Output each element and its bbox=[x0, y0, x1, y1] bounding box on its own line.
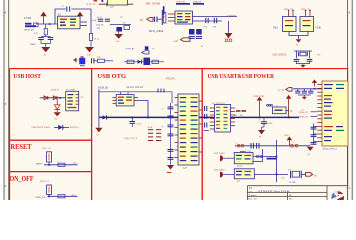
crystal Y1 bbox=[288, 170, 301, 184]
grid reference letter left top bbox=[4, 11, 6, 15]
battery charger IC U9 pins top bbox=[301, 8, 311, 17]
pins of U4 bbox=[113, 98, 139, 104]
svg-text:5V_IN: 5V_IN bbox=[278, 89, 285, 92]
ground GND5 bbox=[297, 61, 310, 67]
power port VDD_USB bbox=[253, 95, 264, 117]
IC U8 bbox=[283, 17, 297, 32]
svg-text:DC.4: DC.4 bbox=[94, 38, 100, 41]
pins left of U5 with caps bbox=[210, 108, 215, 129]
svg-text:X?: X? bbox=[318, 54, 321, 57]
battery charger IC U8 pins top bbox=[284, 8, 294, 17]
capacitor C12 bbox=[294, 59, 300, 61]
svg-text:SCSC D?: SCSC D? bbox=[86, 3, 95, 6]
svg-text:USB_DM: USB_DM bbox=[176, 2, 185, 4]
label XTAL1 below U6 bbox=[323, 147, 338, 150]
net label OSC32 RTC bbox=[273, 54, 287, 57]
capacitor C9 strip bbox=[92, 58, 94, 63]
svg-text:3: 3 bbox=[4, 102, 6, 106]
svg-text:2: 2 bbox=[4, 184, 6, 188]
ground GND10 bbox=[307, 147, 314, 156]
diode D5 above USB HOST box bbox=[73, 56, 85, 66]
svg-text:C?: C? bbox=[152, 48, 155, 51]
svg-text:100nF: 100nF bbox=[267, 123, 273, 125]
svg-text:- STM32F4xx USB: - STM32F4xx USB bbox=[256, 190, 291, 193]
pin right of U2 bbox=[128, 3, 133, 5]
svg-text:RESET: RESET bbox=[11, 142, 33, 151]
wire U4 to bus bbox=[138, 101, 148, 118]
svg-text:SW2 2-3: SW2 2-3 bbox=[40, 180, 50, 183]
resistor R4 on net bbox=[58, 195, 65, 198]
wire row2 to right bbox=[254, 174, 288, 176]
svg-text:BAT USB?: BAT USB? bbox=[214, 152, 225, 155]
svg-text:USB USART&USB POWER: USB USART&USB POWER bbox=[208, 73, 275, 80]
svg-text:ON_OFF: ON_OFF bbox=[10, 174, 34, 183]
power port VDD above U6 bbox=[312, 79, 317, 86]
wire RESET net bbox=[44, 164, 78, 166]
capacitor network below U2 bbox=[97, 17, 123, 30]
pins left of U3 bbox=[168, 14, 175, 21]
svg-text:BAT(5V): BAT(5V) bbox=[70, 126, 79, 129]
svg-text:NRST: NRST bbox=[36, 162, 43, 165]
net label bar USB_DM bbox=[176, 2, 190, 5]
grid reference letter right bottom bbox=[348, 186, 350, 190]
diode D3 on J1 wire bbox=[53, 96, 57, 100]
section box RESET bbox=[10, 140, 92, 171]
wire row1 to right bbox=[253, 157, 277, 162]
polarity circles pair right bbox=[287, 144, 298, 148]
polarity circles row1 bbox=[256, 155, 262, 157]
svg-text:+OD: +OD bbox=[72, 162, 77, 165]
title block text project bbox=[249, 190, 291, 193]
capacitor C22 on bottom wire bbox=[247, 143, 259, 153]
label right of J1 bbox=[81, 97, 84, 99]
pins left of U7 bbox=[175, 98, 179, 158]
label SW1 bbox=[42, 147, 52, 150]
net labels PRESET 2 bbox=[299, 116, 317, 118]
capacitor C1 on top loop bbox=[61, 5, 70, 12]
capacitor C6 bbox=[213, 18, 218, 29]
ground GND6 bbox=[54, 110, 61, 121]
label U7 bbox=[184, 167, 188, 170]
section title RESET bbox=[11, 142, 33, 151]
label NRST bbox=[36, 162, 43, 165]
net label A bbox=[201, 45, 203, 48]
ground arrow with polarity circles bbox=[225, 21, 233, 42]
section title USB HOST bbox=[14, 73, 42, 80]
svg-text:47pF: 47pF bbox=[148, 127, 153, 129]
svg-text:U?: U? bbox=[237, 180, 240, 183]
net labels above power bus bbox=[234, 115, 244, 117]
ground GND9 bbox=[258, 127, 265, 139]
net arrow VBUS_FS bbox=[142, 51, 150, 54]
net label bar USB_DP bbox=[193, 2, 204, 5]
section box USB OTG bbox=[92, 69, 203, 202]
title block text TITLE bbox=[249, 187, 253, 190]
decoupling caps column bbox=[168, 103, 174, 144]
svg-text:1u: 1u bbox=[162, 127, 164, 129]
svg-text:1-D: 1-D bbox=[174, 40, 178, 43]
ground GND7 bbox=[95, 117, 102, 136]
pins right of U5 bbox=[231, 108, 236, 126]
svg-text:XTAL1/PC14: XTAL1/PC14 bbox=[323, 147, 338, 150]
net label VB OTG bbox=[166, 77, 176, 80]
company logo bbox=[331, 191, 345, 204]
svg-text:USB OTG: USB OTG bbox=[98, 73, 127, 80]
power port VDD arrow lower bbox=[174, 38, 191, 43]
diode D8 bbox=[220, 172, 234, 178]
diode D7 bbox=[220, 155, 234, 161]
net label DGB_ID bbox=[98, 86, 108, 89]
svg-text:4: 4 bbox=[348, 11, 350, 15]
bottom supply wire bbox=[235, 145, 310, 147]
svg-text:VB OTG: VB OTG bbox=[166, 77, 176, 80]
label BAT USB row2 bbox=[214, 169, 225, 172]
capacitor C19 bbox=[295, 89, 300, 93]
title block text date bbox=[249, 198, 258, 201]
svg-text:1u: 1u bbox=[162, 109, 164, 111]
pin and net label left of U2 bbox=[86, 0, 107, 6]
ground GND2 bbox=[85, 47, 94, 57]
svg-text:B.te: 20: B.te: 20 bbox=[249, 198, 258, 200]
svg-text:F? D? R?: F? D? R? bbox=[126, 48, 135, 51]
svg-text:1u: 1u bbox=[162, 118, 164, 120]
resistor R5 bbox=[236, 110, 241, 112]
title block text rev bbox=[289, 194, 293, 201]
IC U11 load switch bbox=[234, 169, 254, 183]
net label right of bus bbox=[302, 109, 304, 112]
svg-text:5V: 5V bbox=[240, 115, 243, 117]
section title ON_OFF bbox=[10, 174, 34, 183]
connector/net labels left of U1 bbox=[24, 17, 38, 32]
svg-text:VDD: VDD bbox=[284, 135, 289, 137]
svg-text:R22: R22 bbox=[97, 57, 101, 59]
wire U1 input bbox=[36, 23, 58, 25]
svg-text:C?: C? bbox=[258, 120, 260, 122]
capacitor C20 bbox=[302, 89, 307, 93]
IC U1 crystal oscillator bbox=[58, 14, 81, 29]
sheet frame left outer line bbox=[3, 0, 5, 200]
svg-text:USB HOST VBUS: USB HOST VBUS bbox=[32, 126, 51, 129]
supply rail into U6 bbox=[293, 88, 322, 90]
svg-text:PWR_BT: PWR_BT bbox=[36, 196, 46, 199]
sheet frame left inner line bbox=[8, 0, 10, 200]
net label DBC OF HB bbox=[146, 3, 161, 6]
wire under U8 U9 bbox=[289, 32, 308, 40]
LED DS1 bbox=[54, 98, 60, 110]
label PWR above USB connector bbox=[51, 89, 59, 92]
IC U2 cut at top edge bbox=[107, 0, 127, 9]
svg-text:VDD F?: VDD F? bbox=[227, 15, 237, 18]
svg-text:XX OX TXX OT: XX OX TXX OT bbox=[126, 86, 144, 89]
decoupling caps column lower bbox=[168, 144, 174, 165]
svg-text:R14 C8: R14 C8 bbox=[97, 25, 105, 27]
section box USB HOST bbox=[10, 69, 92, 141]
pins right of U7 bbox=[199, 101, 202, 152]
section box ON_OFF bbox=[10, 172, 92, 202]
port arrow right bbox=[306, 173, 318, 178]
net arrows VBUS strip bbox=[126, 46, 155, 50]
net label USB_OTG bbox=[124, 137, 138, 140]
net junction block B bbox=[110, 23, 131, 32]
resistor pack blue boxes bbox=[189, 29, 202, 35]
IC U9 bbox=[300, 17, 314, 32]
capacitor C13 bbox=[307, 59, 313, 61]
svg-text:100nF: 100nF bbox=[30, 43, 37, 46]
label BAT USB row1 bbox=[214, 152, 225, 155]
net label VDD reset bbox=[72, 162, 77, 165]
svg-text:U? F?: U? F? bbox=[237, 165, 243, 168]
net labels PRESET bbox=[299, 112, 317, 114]
capacitor C17 below bus bbox=[130, 117, 143, 127]
ground GND8 bbox=[167, 165, 174, 173]
IC U4 OTG power switch bbox=[116, 95, 134, 106]
diode D4 SS14 bbox=[54, 125, 69, 130]
power port VDD33 bbox=[286, 95, 293, 118]
resistor diode chain strip bbox=[124, 58, 164, 65]
title block text number bbox=[249, 194, 258, 197]
resistor R6 bbox=[241, 110, 246, 112]
svg-text:1u: 1u bbox=[176, 146, 178, 148]
net label XX bbox=[318, 54, 321, 57]
capacitor C5 bbox=[204, 18, 209, 29]
svg-text:USB HOST: USB HOST bbox=[14, 73, 42, 80]
svg-text:PA2: PA2 bbox=[274, 27, 279, 30]
net label USB right bbox=[316, 27, 321, 30]
power symbol VCC3.3 above U1 bbox=[77, 12, 83, 20]
ground GND1 bbox=[41, 44, 51, 57]
diode D2 on J1 wire bbox=[44, 96, 48, 100]
svg-text:PRSB_F?: PRSB_F? bbox=[299, 117, 308, 119]
capacitor C3 bbox=[30, 38, 54, 46]
svg-text:4.7uF: 4.7uF bbox=[137, 124, 143, 126]
svg-text:DGB_ID: DGB_ID bbox=[98, 86, 108, 89]
net label CF bbox=[282, 177, 286, 180]
sheet frame right outer line bbox=[351, 0, 353, 200]
label U5 regulator bbox=[212, 102, 226, 105]
svg-text:OB: OB bbox=[314, 175, 318, 178]
net label VDD right bbox=[227, 15, 237, 18]
power port VDD left arrow bbox=[140, 17, 154, 21]
svg-text:DBC OF HB: DBC OF HB bbox=[146, 3, 161, 6]
net label MCO_A bbox=[149, 30, 164, 33]
wire to pin header bbox=[157, 10, 166, 25]
net label bar bbox=[267, 158, 277, 160]
svg-text:VD: VD bbox=[140, 19, 144, 22]
capacitor column left of U5 bbox=[204, 106, 210, 131]
net label PA2 bbox=[274, 27, 279, 30]
push button SW1 bbox=[47, 152, 52, 165]
rail above OTG IC bbox=[99, 90, 172, 118]
inductor L1 bead bbox=[267, 104, 286, 113]
section title USB OTG bbox=[98, 73, 127, 80]
svg-text:C9: C9 bbox=[120, 17, 123, 19]
section title USB USART&USB POWER bbox=[208, 73, 275, 80]
label PWR_BT bbox=[36, 196, 46, 199]
resistor R1 vertical bbox=[34, 24, 48, 37]
caps column left of U6 lower bbox=[311, 124, 318, 146]
power port 5V_IN arrow bbox=[278, 88, 293, 92]
grid reference letter left bottom bbox=[4, 184, 6, 188]
label SW2 bbox=[40, 180, 50, 183]
pins left of U6 bbox=[317, 85, 322, 142]
wire to port bbox=[301, 173, 305, 175]
IC U7 USB OTG connector bbox=[178, 94, 199, 165]
svg-text:1k C?: 1k C? bbox=[97, 17, 102, 19]
svg-text:4: 4 bbox=[4, 11, 6, 15]
IC U10 load switch bbox=[234, 151, 253, 168]
svg-text:2: 2 bbox=[348, 186, 350, 190]
resistor array dashes bbox=[148, 127, 161, 141]
USB-A connector J1 bbox=[66, 91, 79, 111]
ground GND3 bbox=[115, 32, 124, 44]
svg-text:PWR F?: PWR F? bbox=[51, 89, 59, 92]
svg-text:OSC32/RTC: OSC32/RTC bbox=[273, 54, 287, 57]
svg-text:R?: R? bbox=[123, 23, 125, 25]
svg-text:VB: VB bbox=[234, 115, 238, 117]
ground GND4 bbox=[296, 39, 302, 46]
net label USB HOST VBUS bbox=[32, 126, 51, 129]
svg-text:BAT USB?: BAT USB? bbox=[214, 169, 225, 172]
capacitor C2 bbox=[38, 37, 50, 44]
svg-text:A: A bbox=[201, 45, 203, 48]
net labels OTG data bbox=[126, 86, 144, 89]
cap value labels OTG column bbox=[162, 109, 179, 149]
main bus VBUS bbox=[99, 117, 299, 119]
pin cluster marks bbox=[158, 89, 164, 93]
sheet frame right inner line bbox=[347, 0, 349, 200]
polarity circles pair left bbox=[235, 143, 244, 147]
IC U5 bbox=[215, 105, 231, 133]
svg-text:C?: C? bbox=[57, 162, 59, 164]
svg-text:+DD: +DD bbox=[71, 194, 76, 197]
wire top loop over U1 bbox=[55, 9, 91, 34]
node stubs right of U1 bbox=[80, 19, 97, 26]
label U? USB bbox=[67, 89, 75, 92]
section box USB USART&USB POWER bbox=[202, 69, 347, 202]
svg-text:SW1 1-2: SW1 1-2 bbox=[42, 147, 52, 150]
capacitor C21 bbox=[298, 89, 314, 100]
svg-text:0?D: 0?D bbox=[87, 54, 91, 57]
svg-text:32.768: 32.768 bbox=[289, 182, 296, 184]
svg-text:5V: 5V bbox=[81, 97, 84, 99]
svg-text:PRSB_F?: PRSB_F? bbox=[299, 112, 308, 114]
svg-text:MCO_A/PA8: MCO_A/PA8 bbox=[149, 30, 164, 33]
capacitor C7 below bbox=[189, 37, 202, 39]
wire bus right of U3 bbox=[193, 17, 238, 22]
wire ON_OFF net bbox=[48, 196, 78, 198]
capacitor C18 below bus bbox=[258, 117, 273, 127]
svg-text:U? PD: U? PD bbox=[24, 17, 31, 20]
IC U3 USB filter bbox=[175, 11, 193, 24]
capacitor C14 on reset net bbox=[57, 162, 65, 167]
resistor R2 vertical right bbox=[89, 34, 99, 47]
resistor R3 strip bbox=[94, 57, 113, 62]
title block frame bbox=[247, 186, 349, 200]
svg-text:N.mber:: N.mber: bbox=[249, 194, 258, 197]
vertical wires right bbox=[262, 140, 277, 182]
capacitor C4 bbox=[155, 17, 157, 23]
power port VDD bottom wire bbox=[284, 135, 292, 146]
net flag left of U3 bbox=[163, 6, 165, 17]
svg-text:USB: USB bbox=[316, 27, 321, 30]
svg-text:USB_DP: USB_DP bbox=[193, 2, 202, 4]
net label VDD onoff bbox=[71, 194, 76, 197]
net label BAT 5V bbox=[70, 126, 79, 129]
push button SW2 bbox=[47, 185, 52, 196]
IC U6 MCU bbox=[322, 81, 348, 146]
diode D6 on bus bbox=[103, 115, 107, 119]
grid reference letter right top bbox=[348, 11, 350, 15]
power symbol VCC3.3 top-left bbox=[40, 12, 46, 24]
crystal Y2 circuit bbox=[294, 51, 312, 58]
svg-text:USB_OTG_P: USB_OTG_P bbox=[124, 137, 138, 140]
wire into J1 bbox=[40, 97, 66, 99]
grid reference letter left mid bbox=[4, 102, 6, 106]
